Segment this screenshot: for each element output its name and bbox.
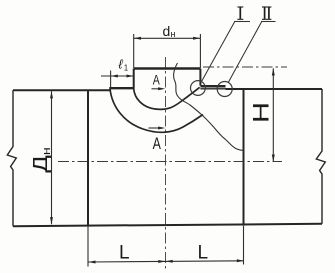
svg-text:L: L	[119, 243, 130, 264]
svg-text:L: L	[198, 243, 209, 264]
svg-text:ℓ: ℓ	[119, 57, 124, 72]
svg-text:н: н	[171, 29, 176, 39]
svg-text:Дн: Дн	[29, 147, 53, 173]
svg-text:A: A	[153, 135, 161, 153]
svg-text:H: H	[250, 102, 274, 123]
svg-text:1: 1	[124, 64, 129, 73]
svg-text:d: d	[163, 23, 171, 39]
svg-text:A: A	[153, 72, 161, 88]
